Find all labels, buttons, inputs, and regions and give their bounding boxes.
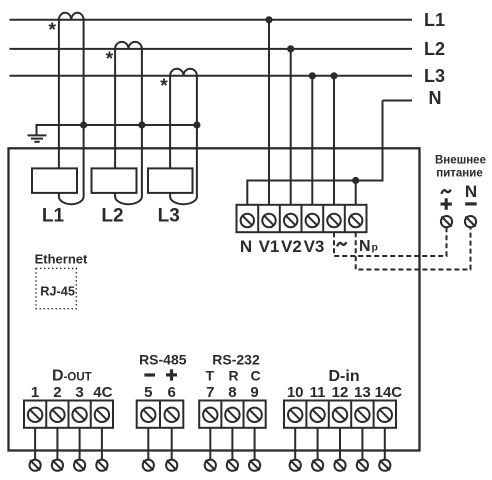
svg-text:D-OUT: D-OUT [52,367,92,384]
wire T3 secondary right [196,76,198,197]
svg-text:6: 6 [168,384,176,401]
current transformer T3 winding [170,69,197,76]
wire N to terminal [247,101,382,205]
wire terminal 4C [101,428,103,460]
external screw 1 [29,460,40,471]
svg-text:14C: 14C [375,384,403,401]
svg-text:12: 12 [332,384,349,401]
wire terminal 6 [171,428,173,460]
wire T1 secondary loop [59,193,84,204]
svg-text:D-in: D-in [329,368,360,385]
terminal screw 7 [203,408,217,422]
terminal screw V1 [262,214,275,227]
svg-text:N: N [240,237,252,256]
terminal screw V3 [306,214,319,227]
wire terminal 8 [231,428,233,460]
current input 2 box I2 [92,168,137,193]
svg-text:N: N [429,88,442,108]
external screw 7 [205,460,216,471]
external screw 2 [52,460,63,471]
label ~ terminal [337,242,346,246]
connector RJ-45 [36,268,76,308]
wire terminal 7 [209,428,211,460]
node L1 tap [266,17,271,22]
svg-text:Ethernet: Ethernet [35,251,88,266]
current transformer T1 winding [59,13,84,20]
ground [28,135,47,141]
wire T1 secondary right [83,20,85,197]
wire V2 from L2 [290,49,292,205]
svg-text:питание: питание [436,167,482,179]
wire T3 secondary left [169,76,171,169]
label RS-485 plus [166,369,177,380]
wire T3 secondary loop [170,193,197,204]
wire supply neutral dashed [356,227,471,269]
terminal screw 13 [355,408,369,422]
svg-text:9: 9 [250,384,258,401]
svg-text:p: p [372,242,378,254]
terminal screw supply neutral [465,216,476,227]
external screw 3 [74,460,85,471]
svg-text:V3: V3 [304,237,325,256]
node T1 common junction [81,122,86,127]
wire V3 from L3 [311,76,313,205]
terminal screw 11 [310,408,324,422]
svg-text:V1: V1 [259,237,280,256]
svg-text:13: 13 [354,384,371,401]
current input 3 box I3 [148,168,193,193]
terminal block X1 (N V1 V2 V3 ~ Np) [237,205,367,232]
wire terminal 9 [254,428,256,460]
label RS-485 minus [144,373,155,376]
external screw 5 [143,460,154,471]
svg-text:L2: L2 [424,39,445,59]
svg-text:Внешнее: Внешнее [435,155,486,167]
terminal screw ~ [327,214,340,227]
terminal screw Np [349,214,362,227]
svg-text:7: 7 [206,384,214,401]
label D-OUT [52,367,92,384]
node T2 common junction [139,122,144,127]
wire terminal 12 [339,428,341,460]
wire terminal 1 [34,428,36,460]
svg-text:L1: L1 [424,10,445,30]
svg-text:10: 10 [287,384,304,401]
svg-text:V2: V2 [281,237,302,256]
svg-text:RJ-45: RJ-45 [40,283,75,298]
wire terminal 2 [56,428,58,460]
terminal screw 14C [378,408,392,422]
node L3 tap V3 [310,73,315,78]
label Np terminal [359,238,378,255]
label supply ~ [441,190,451,194]
terminal block X3 RS-485 [137,401,184,428]
external screw 8 [227,460,238,471]
node T3 common junction [194,122,199,127]
terminal screw 3 [72,408,86,422]
svg-text:2: 2 [53,384,61,401]
node L2 tap [288,46,293,51]
wire terminal 13 [361,428,363,460]
terminal block X2 D-OUT [24,401,113,428]
terminal screw 2 [50,408,64,422]
current transformer T2 winding [115,42,142,49]
node L3 tap supply [331,73,336,78]
wire T1 secondary left [58,20,60,169]
external screw 6 [166,460,177,471]
wire T2 secondary loop [115,193,142,204]
wire Np drop [355,181,357,205]
label supply plus [441,198,452,210]
wire line L3 [10,75,413,77]
external screw 14C [379,460,390,471]
svg-text:3: 3 [75,384,83,401]
wire terminal 3 [79,428,81,460]
svg-text:C: C [251,368,261,384]
terminal screw 5 [141,408,155,422]
wire terminal 14C [384,428,386,460]
external screw 4C [96,460,107,471]
wire T2 secondary right [141,49,143,197]
svg-text:L1: L1 [42,206,65,227]
svg-text:N: N [465,182,477,201]
wire terminal 11 [317,428,319,460]
svg-text:5: 5 [144,384,152,401]
svg-text:L3: L3 [158,206,180,227]
svg-text:RS-485: RS-485 [139,352,187,368]
svg-text:8: 8 [228,384,236,401]
svg-text:L3: L3 [424,66,445,86]
device outline [9,148,420,450]
terminal screw 10 [288,408,302,422]
svg-text:*: * [48,20,56,41]
svg-text:R: R [229,368,239,384]
svg-text:4C: 4C [93,384,112,401]
wire V1 from L1 [268,20,270,205]
wire terminal 10 [294,428,296,460]
label supply minus [465,202,477,205]
wire T2 secondary left [114,49,116,168]
wire CT secondary common [37,125,197,135]
terminal screw 9 [247,408,261,422]
wire line L1 [10,19,413,21]
svg-text:N: N [359,238,371,255]
wire terminal 5 [147,428,149,460]
wire line L2 [10,48,413,50]
svg-text:*: * [160,76,168,97]
svg-text:*: * [106,49,114,70]
terminal screw N [241,214,254,227]
terminal screw 8 [225,408,239,422]
wire supply phase dashed [334,227,447,256]
terminal block X4 RS-232 [199,401,266,428]
wire supply phase from L3 [333,76,335,205]
wire line N [383,100,413,102]
terminal screw 12 [333,408,347,422]
node Np tap [353,178,358,183]
external screw 10 [290,460,301,471]
terminal screw V2 [284,214,297,227]
label external supply [435,155,486,180]
current input 1 box I1 [32,168,77,193]
external screw 9 [249,460,260,471]
external screw 11 [312,460,323,471]
svg-text:11: 11 [310,384,326,401]
terminal screw 1 [28,408,42,422]
terminal screw 4C [95,408,109,422]
external screw 13 [357,460,368,471]
svg-text:RS-232: RS-232 [212,352,260,368]
svg-text:1: 1 [31,384,39,401]
svg-text:T: T [206,368,215,384]
svg-text:L2: L2 [101,206,123,227]
terminal screw supply phase [441,216,452,227]
terminal block X5 D-in [284,401,396,428]
external screw 12 [334,460,345,471]
terminal screw 6 [165,408,179,422]
